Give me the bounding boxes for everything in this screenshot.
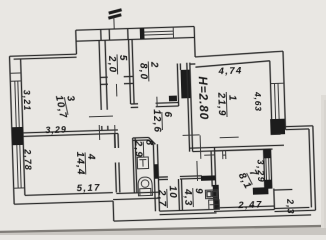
rooms 9/10 bottom wall bbox=[159, 209, 216, 211]
top band divider c bbox=[127, 29, 129, 40]
svg-text:3,29: 3,29 bbox=[45, 125, 67, 136]
lower outer wall line bbox=[114, 215, 311, 221]
bay below room7: bottom band bbox=[217, 206, 274, 208]
room1 bottom wall bbox=[189, 145, 283, 148]
kitchen (room2) bottom wall bbox=[131, 103, 138, 105]
window W4 room1 right bbox=[271, 83, 286, 119]
leader line from section mark bbox=[113, 17, 115, 29]
black fill above room7 window bbox=[264, 149, 271, 158]
tick on room1 left wall bbox=[183, 134, 200, 137]
svg-text:8: 8 bbox=[143, 139, 154, 146]
door tick room 3 bbox=[89, 115, 113, 118]
tick on room7 left wall bbox=[204, 154, 215, 156]
svg-text:4,63: 4,63 bbox=[253, 91, 264, 112]
balcony outline bbox=[285, 125, 312, 128]
room3 right wall / room5 left wall bbox=[99, 40, 101, 109]
tick crossing rooms9 top wall bbox=[196, 161, 199, 181]
room1 right wall outer bbox=[283, 51, 285, 129]
svg-text:2,7: 2,7 bbox=[156, 189, 168, 208]
window W2 (room 3) on left wall bbox=[10, 73, 23, 127]
room 1 top-left inner connector bbox=[190, 63, 195, 65]
svg-text:2,3: 2,3 bbox=[285, 198, 296, 215]
washbasin fixture bbox=[137, 157, 148, 169]
window W5 room7 bbox=[266, 158, 269, 180]
svg-text:2,78: 2,78 bbox=[22, 148, 33, 171]
outer wall: room 3 top (thin double) bbox=[10, 54, 77, 56]
black pier below window W4 bbox=[270, 119, 285, 135]
outer wall: left step up bbox=[75, 30, 78, 54]
svg-text:6: 6 bbox=[162, 111, 173, 118]
top band inner line bbox=[76, 37, 194, 41]
step down at entrance bbox=[112, 201, 115, 221]
svg-text:4,74: 4,74 bbox=[217, 65, 242, 77]
svg-text:14,4: 14,4 bbox=[74, 152, 86, 176]
window W1 on top band (kitchen window) bbox=[144, 27, 173, 39]
room 4 label bbox=[74, 151, 97, 176]
toilet room (8) left wall bbox=[133, 138, 135, 193]
svg-text:21,9: 21,9 bbox=[215, 92, 227, 117]
svg-text:1: 1 bbox=[226, 95, 237, 102]
top band divider b bbox=[108, 29, 110, 40]
room 10 label bbox=[156, 185, 179, 208]
svg-text:2,0: 2,0 bbox=[106, 55, 118, 74]
room 1 top wall inner bbox=[195, 61, 270, 67]
room5/room2 divider wall bbox=[129, 40, 131, 104]
room1 left wall bbox=[187, 63, 190, 152]
photo right edge band bbox=[321, 95, 326, 228]
svg-text:H=2.80: H=2.80 bbox=[196, 76, 211, 120]
svg-text:5: 5 bbox=[117, 55, 128, 62]
black segment rooms9 top wall right bbox=[201, 175, 216, 180]
svg-text:3,29: 3,29 bbox=[255, 159, 266, 183]
room 3 label bbox=[53, 92, 79, 120]
hall / bath block: room4 right wall bbox=[113, 134, 115, 148]
svg-text:8,0: 8,0 bbox=[137, 63, 149, 81]
room7 top wall bbox=[213, 147, 215, 150]
svg-text:2,9: 2,9 bbox=[132, 140, 144, 159]
svg-text:12,6: 12,6 bbox=[151, 109, 163, 133]
room5 door leaf bbox=[115, 84, 117, 96]
room 7 label bbox=[236, 166, 263, 191]
kitchen door post tick bbox=[156, 97, 158, 107]
tick on divider bbox=[98, 125, 100, 140]
room1 right wall inner bbox=[270, 61, 272, 119]
cross tick right bbox=[220, 136, 239, 139]
section mark (=) above plan bbox=[108, 10, 122, 18]
balcony mid line bbox=[274, 188, 292, 191]
long tick crossing room1 bottom wall bbox=[199, 135, 202, 158]
bottom wall of room 4 inner bbox=[25, 193, 113, 196]
svg-text:4,3: 4,3 bbox=[182, 188, 194, 207]
sink icon room9 bbox=[209, 200, 220, 210]
toilet room right wall bbox=[153, 144, 155, 211]
black pier at kitchen wall end bbox=[169, 96, 177, 102]
room 8 label bbox=[132, 139, 155, 158]
outer wall: step down right of top band bbox=[193, 26, 196, 56]
room 6 label bbox=[151, 109, 174, 134]
toilet room top wall + chamfer bbox=[133, 136, 149, 139]
black fill below room7 window bbox=[265, 180, 272, 189]
tick on divider right end bbox=[114, 125, 117, 148]
svg-text:2,47: 2,47 bbox=[237, 199, 263, 211]
svg-text:3,21: 3,21 bbox=[22, 90, 33, 112]
balcony door opening caps bbox=[271, 133, 281, 135]
room 2 label bbox=[137, 61, 160, 82]
room7 left wall bbox=[211, 151, 212, 186]
room 5 label bbox=[106, 54, 129, 75]
stove icon room9 bbox=[205, 190, 218, 199]
room 1 label bbox=[215, 91, 238, 117]
rooms 9/10 top wall bbox=[158, 176, 167, 178]
svg-text:10: 10 bbox=[167, 185, 178, 199]
svg-text:4: 4 bbox=[85, 153, 96, 161]
black pier on left wall bbox=[12, 127, 24, 145]
room7 window wall (right) bbox=[264, 149, 265, 188]
wall room3/room4 divider bbox=[23, 130, 118, 133]
window W3 (room 4) on left wall bbox=[12, 145, 24, 188]
room 1 top wall outer bbox=[195, 51, 283, 57]
room10/room9 divider bbox=[177, 179, 180, 210]
room5 bottom wall band bbox=[100, 76, 107, 78]
room 9 label bbox=[182, 188, 205, 208]
black segment on toilet room right wall bbox=[154, 164, 158, 179]
photo bottom edge shadow bbox=[0, 227, 326, 236]
ventilation shaft black bbox=[181, 70, 191, 99]
top band divider a bbox=[100, 29, 102, 40]
svg-text:5,17: 5,17 bbox=[77, 182, 101, 194]
left exterior wall inner line bbox=[21, 59, 25, 195]
bottom wall of room 4 outer bbox=[14, 201, 113, 204]
top band outer line bbox=[76, 26, 194, 30]
toilet fixture bbox=[138, 177, 153, 196]
door frame mark below room1 bottom-left bbox=[222, 151, 224, 159]
black bottom stub of room7 bbox=[253, 187, 269, 194]
left exterior wall outer line bbox=[10, 56, 15, 204]
bay right edge bbox=[273, 189, 276, 210]
toilet block bottom wall bbox=[116, 192, 158, 193]
svg-text:9: 9 bbox=[193, 188, 204, 195]
room2 right wall bbox=[177, 64, 178, 106]
top band black pier bbox=[140, 28, 145, 39]
svg-text:2: 2 bbox=[148, 61, 159, 69]
black pier room7 left bottom bbox=[213, 185, 220, 209]
